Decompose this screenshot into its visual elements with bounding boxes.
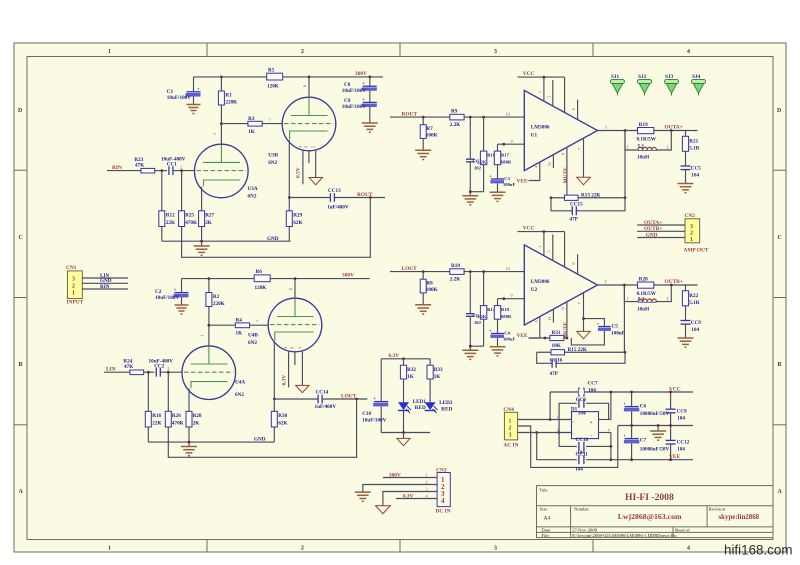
resistor R7	[420, 117, 437, 150]
node dot R25 tap	[180, 169, 183, 172]
svg-text:62K: 62K	[293, 220, 302, 226]
GND wire stage2	[148, 441, 274, 443]
svg-text:GND: GND	[267, 236, 279, 242]
svg-text:CC8: CC8	[677, 408, 687, 414]
node dot out u2	[623, 284, 626, 287]
node dot gnd link u2	[469, 345, 472, 348]
power triangle LED gnd	[397, 433, 410, 446]
resistor R32	[400, 359, 416, 403]
svg-text:OUTA+: OUTA+	[644, 220, 662, 226]
power triangle heater1	[309, 178, 323, 185]
svg-text:CN1: CN1	[66, 265, 77, 271]
svg-text:6: 6	[288, 288, 293, 290]
feedback wire u2	[537, 351, 625, 353]
resistor R8	[420, 272, 437, 305]
svg-text:CC14: CC14	[316, 390, 329, 396]
svg-text:104: 104	[691, 327, 699, 333]
svg-text:LED1: LED1	[413, 399, 427, 405]
svg-text:+: +	[197, 87, 200, 93]
wire R3 to U3B grid	[262, 123, 282, 125]
svg-text:5.1R: 5.1R	[689, 300, 699, 306]
wire CC14 to LOUT	[322, 398, 367, 400]
svg-text:1: 1	[212, 133, 217, 135]
capacitor CC5	[681, 165, 702, 183]
svg-text:R21: R21	[689, 138, 698, 144]
svg-text:CC11: CC11	[576, 451, 589, 457]
svg-text:102: 102	[474, 320, 482, 325]
svg-text:Revision: Revision	[709, 507, 726, 512]
wire bridge plus to vcc	[599, 392, 611, 420]
svg-text:1: 1	[537, 91, 542, 93]
svg-text:R7: R7	[426, 126, 433, 132]
resistor R31 mute	[529, 330, 567, 349]
node dot gnd R27	[200, 240, 203, 243]
node dot R7 tap	[422, 116, 425, 119]
VCC rail u1	[518, 76, 565, 78]
svg-text:2.2K: 2.2K	[450, 277, 461, 283]
svg-text:R2: R2	[213, 294, 220, 300]
capacitor C6	[623, 392, 669, 426]
svg-text:104: 104	[691, 172, 699, 178]
svg-text:D: D	[18, 108, 22, 114]
svg-text:GND: GND	[254, 437, 266, 443]
svg-text:R3: R3	[248, 116, 255, 122]
node dot out u1	[624, 129, 627, 132]
VCC rail u2	[518, 231, 565, 233]
svg-text:C4: C4	[504, 331, 510, 336]
pin 1 wire u1	[543, 77, 545, 101]
node dot R2 bottom	[208, 324, 211, 327]
feedback wire stage2	[168, 399, 356, 457]
svg-text:Number: Number	[574, 507, 590, 512]
node dot R26 tap	[167, 371, 170, 374]
svg-text:1uF/400V: 1uF/400V	[315, 404, 337, 410]
LED1	[398, 399, 426, 433]
ground stage2	[181, 442, 197, 456]
svg-text:2.2K: 2.2K	[477, 159, 487, 164]
node dot outa junction	[670, 129, 673, 132]
svg-text:100uF: 100uF	[611, 330, 625, 336]
svg-text:7: 7	[577, 302, 582, 304]
svg-text:300V: 300V	[342, 273, 354, 279]
op-amp U2	[524, 245, 597, 325]
capacitor CC6	[559, 397, 609, 432]
svg-text:R19: R19	[639, 122, 648, 128]
svg-text:5: 5	[310, 146, 315, 148]
svg-text:+: +	[362, 81, 365, 87]
svg-text:R4: R4	[236, 317, 243, 323]
svg-text:5: 5	[546, 250, 551, 252]
capacitor CC2	[149, 358, 174, 376]
svg-text:6N2: 6N2	[248, 340, 257, 346]
resistor R15	[551, 347, 587, 355]
svg-text:1: 1	[537, 245, 542, 247]
svg-text:2K: 2K	[205, 220, 212, 226]
svg-text:22K: 22K	[152, 421, 161, 427]
svg-text:MUTE: MUTE	[563, 167, 569, 184]
ground stage1	[194, 241, 210, 255]
svg-text:9: 9	[511, 293, 513, 298]
title block	[537, 486, 774, 538]
output wire u1	[598, 130, 698, 132]
svg-text:104: 104	[677, 447, 685, 453]
svg-text:470K: 470K	[172, 421, 184, 427]
triode U3A	[195, 144, 258, 199]
node dot mute node	[566, 337, 569, 340]
connector CN3	[436, 467, 451, 514]
300V rail stage2	[182, 278, 370, 280]
node dot R1 top on rail	[220, 76, 223, 79]
svg-text:5: 5	[546, 96, 551, 98]
svg-text:2: 2	[72, 283, 75, 289]
svg-text:Date:: Date:	[541, 528, 551, 533]
wire CN4 pin1 AC1	[518, 419, 572, 421]
node dot cc8 top	[669, 391, 672, 394]
node dot gnd R28	[188, 441, 191, 444]
svg-text:1: 1	[108, 546, 111, 552]
svg-text:hifi168.com: hifi168.com	[724, 543, 792, 558]
svg-text:104: 104	[578, 411, 586, 417]
svg-text:OUTB+: OUTB+	[665, 279, 683, 285]
svg-text:11: 11	[547, 316, 552, 320]
pin 3 cathode wire U3A	[201, 187, 203, 211]
ground psu mid	[650, 424, 666, 440]
svg-text:R18: R18	[501, 307, 510, 312]
svg-text:File:: File:	[541, 533, 549, 538]
svg-text:1: 1	[509, 418, 512, 424]
svg-text:R15 22K: R15 22K	[568, 347, 587, 353]
heater pin 4 wire U4B	[288, 351, 290, 387]
node dot pin7 u2	[582, 317, 585, 320]
svg-text:10: 10	[506, 266, 510, 271]
resistor R24	[123, 359, 143, 375]
wire CN3 pin4 heater	[396, 498, 437, 500]
capacitor CC1	[161, 157, 186, 175]
wire RIN input	[107, 170, 141, 172]
node dot R8 tap	[422, 270, 425, 273]
svg-text:0.1R/5W: 0.1R/5W	[637, 136, 657, 142]
svg-text:SJ1: SJ1	[611, 74, 619, 80]
svg-text:R29: R29	[293, 213, 302, 219]
svg-text:B: B	[778, 362, 782, 368]
wire U3B anode to rail	[308, 77, 310, 97]
wire R24 to CC2	[144, 371, 155, 373]
wire CN1 pin3 LIN	[82, 277, 128, 279]
feedback wire u1	[551, 197, 625, 199]
capacitor C2	[155, 279, 189, 305]
wire CN3 pin3 agnd	[383, 492, 437, 506]
capacitor C7	[623, 426, 669, 460]
jumper SJ4	[692, 74, 706, 96]
wire CN4 pin2 CT	[518, 426, 618, 468]
svg-text:1: 1	[72, 290, 75, 296]
svg-text:10: 10	[506, 112, 510, 117]
wire grid bias R4	[209, 324, 235, 326]
pin9 stub wire u2	[498, 298, 525, 300]
feedback vertical u2	[623, 285, 625, 352]
svg-text:R12: R12	[166, 213, 175, 219]
svg-text:10000uF/50V: 10000uF/50V	[640, 446, 670, 452]
op-amp U1	[524, 90, 597, 170]
svg-text:CC2: CC2	[154, 363, 164, 369]
svg-text:120K: 120K	[255, 285, 267, 291]
svg-text:D1: D1	[571, 406, 578, 412]
capacitor C3	[489, 174, 515, 192]
svg-text:+: +	[623, 433, 626, 439]
node dot r31 left	[544, 337, 547, 340]
svg-text:Size: Size	[540, 507, 548, 512]
capacitor CC9	[681, 320, 702, 338]
node dot cc3 tap	[469, 116, 472, 119]
svg-text:CC10: CC10	[576, 437, 589, 443]
capacitor CC14	[315, 390, 337, 410]
svg-text:22K: 22K	[166, 220, 175, 226]
svg-text:470K: 470K	[185, 220, 197, 226]
svg-text:+: +	[489, 174, 492, 180]
svg-text:1: 1	[200, 334, 205, 336]
node dot outb junction	[670, 284, 673, 287]
svg-text:Lwj2868@163.com: Lwj2868@163.com	[618, 512, 682, 521]
svg-text:120K: 120K	[267, 84, 279, 90]
svg-text:6.3V: 6.3V	[296, 167, 302, 178]
resistor R19	[637, 122, 657, 142]
svg-text:VCC: VCC	[523, 71, 535, 77]
resistor R27	[199, 211, 215, 241]
node dot R16 tap	[147, 371, 150, 374]
svg-text:CN2: CN2	[685, 213, 696, 219]
svg-text:D: D	[777, 108, 781, 114]
svg-text:SJ4: SJ4	[692, 74, 700, 80]
svg-text:C6: C6	[640, 404, 647, 410]
bottom wire LED block	[381, 432, 430, 434]
svg-text:1K: 1K	[248, 129, 255, 135]
wire CN2 pin3	[637, 224, 685, 226]
pin 7 wire u1	[583, 138, 585, 177]
inductor L1	[625, 131, 671, 161]
pin 8 wire u2 mute	[566, 302, 568, 338]
node dot ac2 b	[558, 431, 561, 434]
svg-text:OUTB+: OUTB+	[644, 226, 662, 232]
svg-text:R5: R5	[268, 68, 275, 74]
svg-text:RED: RED	[415, 405, 426, 411]
svg-text:R31: R31	[552, 330, 561, 336]
power triangle CN3 pin3	[376, 506, 391, 514]
svg-text:LED2: LED2	[439, 400, 453, 406]
svg-text:R20: R20	[639, 277, 648, 283]
svg-text:U4B: U4B	[248, 333, 258, 339]
resistor R30	[271, 399, 287, 442]
svg-text:CC9: CC9	[691, 320, 701, 326]
resistor R2	[206, 279, 225, 307]
svg-text:1K: 1K	[407, 374, 414, 380]
resistor R1	[218, 77, 237, 106]
svg-text:7: 7	[256, 319, 258, 324]
wire LIN input	[104, 371, 130, 373]
node dot r14 tap	[482, 270, 485, 273]
svg-text:INPUT: INPUT	[67, 300, 84, 306]
svg-text:4: 4	[687, 546, 690, 552]
node dot R1 bottom	[220, 122, 223, 125]
wire CN1 pin1 RIN	[82, 288, 128, 290]
node dot ac1	[549, 418, 552, 421]
power triangle pin7 u1	[577, 177, 590, 185]
pin 5b corner wire u1	[564, 77, 566, 112]
svg-text:100K: 100K	[426, 132, 438, 138]
node dot R12 tap	[160, 169, 163, 172]
svg-text:RED: RED	[441, 406, 452, 412]
pin 4 wire u1 VEE	[529, 162, 540, 181]
svg-text:1: 1	[690, 237, 693, 243]
svg-text:R9: R9	[451, 109, 458, 115]
svg-text:2K: 2K	[193, 421, 200, 427]
svg-text:C9: C9	[344, 98, 351, 104]
svg-text:C3: C3	[504, 176, 510, 181]
node dot vcc u1	[543, 76, 546, 79]
svg-text:Title: Title	[539, 488, 548, 493]
node dot cc12 bottom	[669, 458, 672, 461]
node dot R2 top on rail	[208, 277, 211, 280]
svg-text:VEE: VEE	[517, 333, 528, 339]
svg-text:3: 3	[494, 49, 497, 55]
svg-text:U3B: U3B	[268, 153, 278, 159]
capacitor C9	[342, 91, 377, 110]
svg-text:1uF/400V: 1uF/400V	[327, 204, 349, 210]
wire U4B anode to rail	[294, 279, 296, 299]
svg-text:10uH: 10uH	[637, 154, 649, 160]
svg-text:R8: R8	[426, 280, 433, 286]
svg-text:A: A	[778, 489, 783, 495]
svg-text:47P: 47P	[570, 216, 579, 222]
svg-text:11: 11	[547, 162, 552, 166]
capacitor CC15 loop	[551, 198, 625, 223]
svg-text:3: 3	[72, 276, 75, 282]
pin 11 wire u1	[552, 155, 554, 168]
jumper SJ3	[665, 74, 679, 96]
GND mid wire psu	[618, 425, 693, 427]
capacitor C8	[342, 77, 377, 94]
pin 5 wire u1	[552, 80, 554, 106]
svg-text:ROUT: ROUT	[402, 111, 418, 117]
svg-text:10uF/100V: 10uF/100V	[342, 88, 366, 94]
svg-text:5.1R: 5.1R	[689, 145, 699, 151]
resistor R6	[254, 269, 270, 291]
wire U3A anode to node	[220, 105, 222, 144]
wire CC1 to grid U3A	[173, 170, 195, 172]
svg-text:CC13: CC13	[328, 188, 341, 194]
resistor R23	[134, 157, 154, 173]
svg-text:3: 3	[494, 546, 497, 552]
svg-text:9: 9	[290, 347, 295, 349]
svg-text:2: 2	[509, 425, 512, 431]
heater pin labels 4 9 5	[298, 145, 316, 148]
svg-text:U2: U2	[531, 287, 538, 293]
feedback wire stage1	[182, 198, 371, 258]
svg-text:R33: R33	[434, 367, 443, 373]
wire CN1 pin2 GND	[82, 282, 128, 284]
heater pin 9 wire U4B	[294, 352, 296, 365]
svg-text:LM3886: LM3886	[531, 279, 550, 285]
svg-text:47K: 47K	[135, 162, 144, 168]
svg-text:7: 7	[577, 148, 582, 150]
svg-text:6N2: 6N2	[235, 392, 244, 398]
svg-text:B: B	[19, 362, 23, 368]
U4B cathode wire	[273, 341, 275, 399]
svg-text:~: ~	[572, 420, 575, 425]
svg-text:6N2: 6N2	[248, 194, 257, 200]
capacitor CC12	[666, 426, 690, 460]
svg-text:6N2: 6N2	[268, 160, 277, 166]
heater pin 9 wire	[308, 151, 310, 163]
resistor R20	[637, 277, 657, 297]
heater pin 4 wire	[302, 150, 304, 184]
svg-text:GND: GND	[646, 232, 658, 238]
resistor R10	[450, 263, 464, 283]
wire R4 to U4B grid	[250, 324, 269, 326]
svg-text:8: 8	[561, 153, 566, 155]
resistor R21	[682, 131, 699, 166]
svg-text:CC6: CC6	[576, 397, 586, 403]
pin 5b corner wire u2	[564, 232, 566, 267]
wire CN3 pin2 gnd	[363, 485, 437, 492]
300V rail stage1	[194, 76, 383, 78]
ground CC5	[678, 184, 694, 193]
svg-text:2.2K: 2.2K	[450, 122, 461, 128]
svg-text:4: 4	[441, 497, 445, 505]
wire grid bias R3	[221, 123, 248, 125]
svg-text:102: 102	[474, 165, 482, 170]
svg-text:3: 3	[605, 125, 607, 130]
svg-text:2: 2	[180, 165, 182, 170]
svg-text:1: 1	[426, 473, 428, 478]
node dot LED gnd	[402, 431, 405, 434]
svg-text:10uF/100V: 10uF/100V	[155, 295, 179, 301]
cathode node dot stage2	[273, 398, 276, 401]
svg-text:6.3V: 6.3V	[403, 493, 414, 499]
svg-text:+: +	[174, 287, 177, 293]
resistor R29	[286, 198, 302, 242]
svg-text:E:\lwwjun\2008-02\LM3886\LM388: E:\lwwjun\2008-02\LM3886\LM3886-1.DDBDra…	[572, 533, 677, 538]
wire CN2 pin1	[637, 237, 685, 239]
svg-text:1K: 1K	[434, 374, 441, 380]
resistor R14	[477, 272, 496, 347]
LED2	[425, 400, 453, 413]
svg-text:680R: 680R	[501, 314, 512, 319]
svg-text:47K: 47K	[124, 364, 133, 370]
svg-text:R6: R6	[256, 269, 263, 275]
resistor R4	[235, 317, 249, 336]
svg-text:100uF: 100uF	[503, 337, 515, 342]
capacitor CC8	[666, 392, 687, 426]
svg-text:C2: C2	[155, 289, 162, 295]
svg-text:1: 1	[557, 414, 559, 419]
node dot cc10 right	[610, 445, 613, 448]
svg-text:2: 2	[301, 546, 304, 552]
svg-text:C: C	[19, 235, 23, 241]
wire CN4 pin3 AC2	[518, 432, 572, 434]
capacitor C5 mute	[571, 319, 625, 345]
node dot vcc u2	[543, 230, 546, 233]
svg-text:VEE: VEE	[517, 179, 528, 185]
svg-text:OUTA+: OUTA+	[665, 124, 683, 130]
ground R7	[415, 150, 431, 159]
U3B cathode wire	[288, 140, 290, 198]
svg-text:+: +	[623, 401, 626, 407]
VEE bottom wire psu	[537, 433, 693, 460]
node dot feedback tap	[369, 196, 372, 199]
wire R23 to CC1	[155, 170, 167, 172]
power triangle pin7 u2	[577, 331, 590, 338]
svg-text:2: 2	[301, 49, 304, 55]
